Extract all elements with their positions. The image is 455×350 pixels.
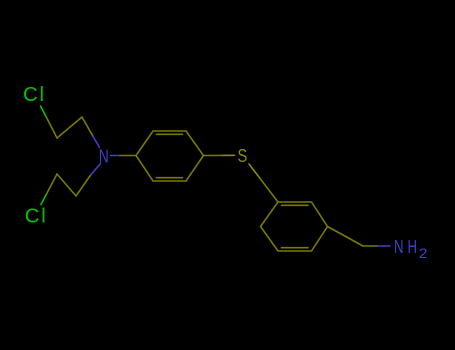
svg-text:N: N <box>99 147 109 167</box>
svg-text:N: N <box>394 236 404 257</box>
svg-text:Cl: Cl <box>23 83 44 106</box>
wire N-CH2 bond (lower arm) <box>90 164 101 176</box>
svg-text:S: S <box>238 146 248 166</box>
wire CH2-Cl(bottom) bond <box>46 174 57 195</box>
double bond inner line ring1 top <box>157 133 183 135</box>
svg-text:Cl: Cl <box>25 205 46 228</box>
benzene ring 1 <box>136 131 204 181</box>
wire Cl(top)-CH2 bond <box>41 106 47 118</box>
wire N-ring bond <box>111 155 121 157</box>
benzene ring 2 <box>261 202 328 251</box>
double bond inner line ring1 bottom <box>157 177 183 179</box>
wire ring2-CH2 bond <box>328 227 364 247</box>
svg-text:2: 2 <box>419 246 428 261</box>
wire CH2-NH2 bond <box>363 245 378 247</box>
wire CH2-N bond (upper arm) <box>82 117 93 136</box>
double bond inner line ring2 bottom <box>282 247 309 249</box>
wire CH2-CH2 bond (lower arm) <box>57 174 76 196</box>
wire S-ring2 bond <box>249 164 260 179</box>
wire ring1-S bond <box>204 154 224 156</box>
double bond inner line ring2 top <box>282 204 309 206</box>
wire CH2-CH2 bond (upper arm) <box>57 117 82 138</box>
svg-text:H: H <box>408 236 418 257</box>
